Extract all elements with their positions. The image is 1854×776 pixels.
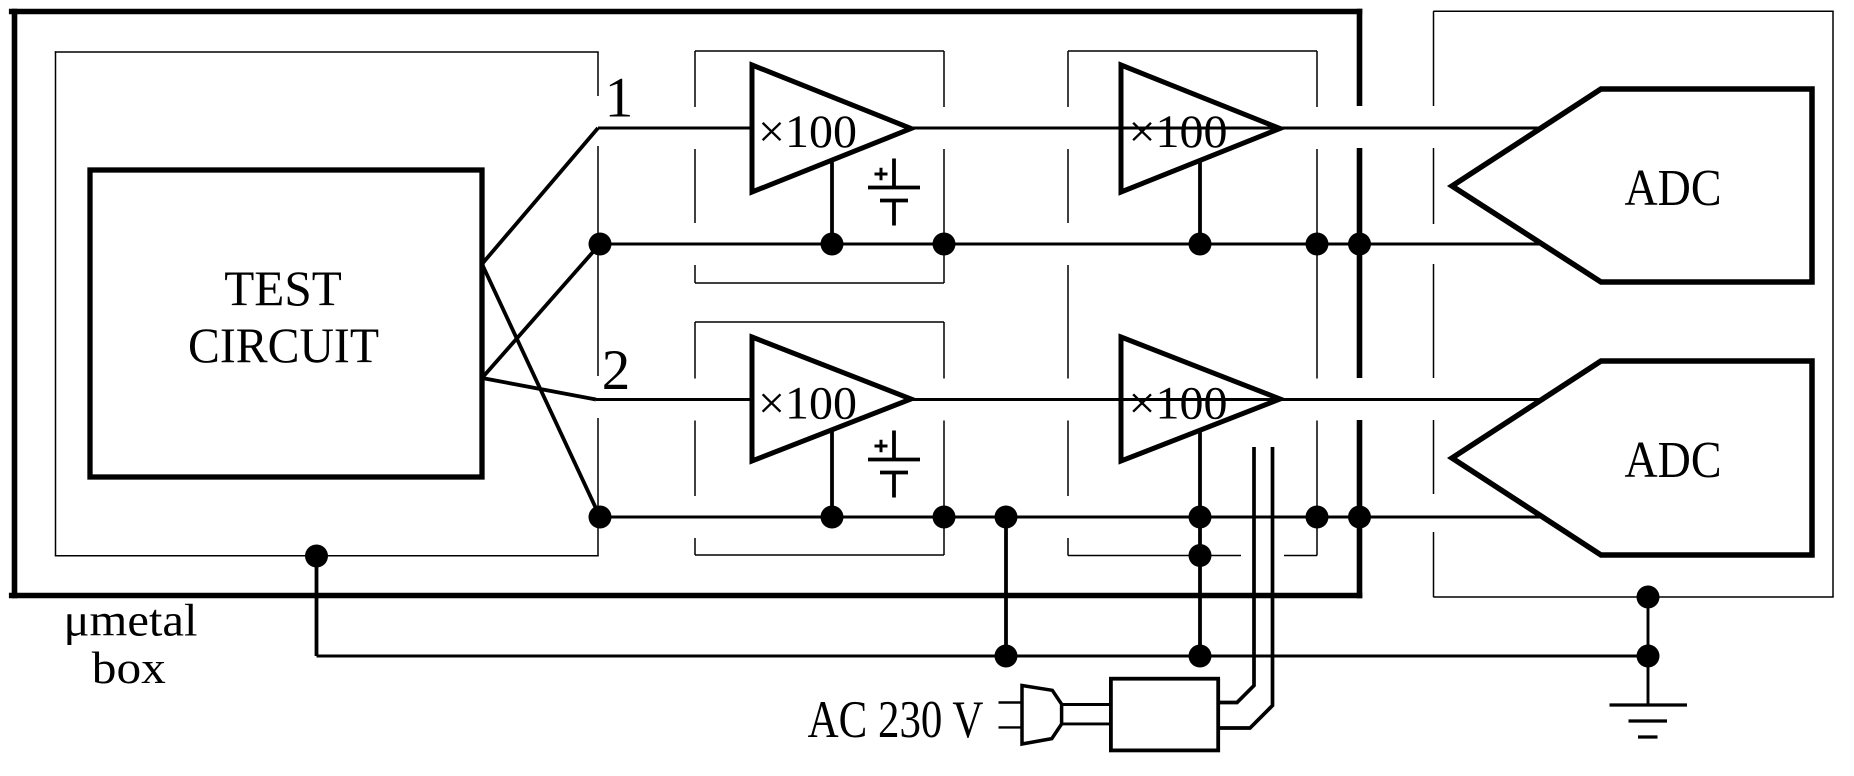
svg-text:×100: ×100 [1129,106,1228,158]
ground (earth symbol) [1610,705,1688,737]
svg-text:μmetal: μmetal [64,596,198,646]
node: shield2 at mu-metal wall [1348,506,1371,529]
wire: A2 ground lead [1198,160,1202,244]
svg-text:2: 2 [602,339,631,402]
shield box around second-stage amplifiers (thin) [1068,51,1317,556]
wire: A3 ground lead [830,430,834,518]
node: shield box bottom tap [305,545,328,568]
wire: signal 1 horizontal [598,127,1542,130]
op-amp A3 (x100 first stage ch2) [752,337,911,461]
svg-text:×100: ×100 [758,378,857,430]
wire: A1 ground lead [830,160,834,244]
svg-text:×100: ×100 [1129,378,1228,430]
node: shield2 at test circuit [589,506,612,529]
shield box around ADCs (thin) [1433,11,1833,597]
wire: mains cord [1062,705,1111,724]
op-amp A2 (x100 second stage ch1) [1121,65,1280,192]
wire: A4 ground lead down to ground bus [1198,430,1202,657]
wire: shield 2 drop to ground bus [1004,517,1008,656]
node: A4 lead at box2 bottom [1189,544,1212,567]
wire: shield 1 horizontal [600,243,1542,246]
node: ground bus at shield2 drop [995,645,1018,668]
node: shield1 at A2 [1189,233,1212,256]
wire: signal 2 horizontal [596,398,1543,401]
node: ADC box at earth drop [1637,586,1660,609]
node: ground bus at A4 drop [1189,645,1212,668]
mu-metal box (outer shield enclosure) [9,9,1362,599]
op-amp A1 (x100 first stage ch1) [752,65,911,192]
svg-text:box: box [92,643,166,693]
svg-text:CIRCUIT: CIRCUIT [188,317,379,373]
wire: shield 2 diagonal from test circuit [482,264,600,517]
wire: DC supply cable + [1218,447,1254,703]
svg-text:1: 1 [605,67,634,130]
shield box around test circuit (thin) [55,51,599,556]
node: shield2 at box2 edge [1306,506,1329,529]
node: shield2 at box1 edge [933,506,956,529]
node: shield1 at box2 edge [1306,233,1329,256]
node: ground bus at earth [1637,645,1660,668]
mains plug P1 [999,703,1023,728]
wire: DC supply cable - [1218,447,1273,728]
wire: shield box bottom to ground bus [315,556,319,656]
svg-text:ADC: ADC [1625,432,1722,489]
ADC U2 (channel 1) [1452,89,1812,282]
wire: signal 1 diagonal from test circuit [482,128,598,264]
svg-text:TEST: TEST [224,260,342,316]
wire: signal 2 diagonal from test circuit [482,378,596,400]
power supply PS1 (AC/DC converter) [1111,679,1218,751]
node: shield1 at test circuit [589,233,612,256]
battery B1 [868,159,920,226]
wire: shield 1 diagonal from test circuit [482,244,600,378]
op-amp A4 (x100 second stage ch2) [1121,337,1280,461]
wire: ADC shield box to earth [1647,597,1650,705]
battery B2 [868,431,920,498]
svg-text:AC 230 V: AC 230 V [808,691,984,749]
node: shield1 at A1 [821,233,844,256]
TEST CIRCUIT block U1 [90,170,482,477]
node: shield1 at box1 edge [933,233,956,256]
node: shield2 ground drop [995,506,1018,529]
shield box around first-stage amplifiers row 1 (thin) [695,51,944,283]
node: shield1 at mu-metal wall [1348,233,1371,256]
wire: shield 2 horizontal [600,516,1542,519]
node: shield2 at A3 [821,506,844,529]
shield box around first-stage amplifiers row 2 (thin) [695,322,944,555]
node: shield2 at A4 [1189,506,1212,529]
svg-text:ADC: ADC [1625,160,1722,217]
ADC U3 (channel 2) [1452,361,1812,555]
svg-text:×100: ×100 [758,106,857,158]
wire: ground bus [317,655,1649,658]
